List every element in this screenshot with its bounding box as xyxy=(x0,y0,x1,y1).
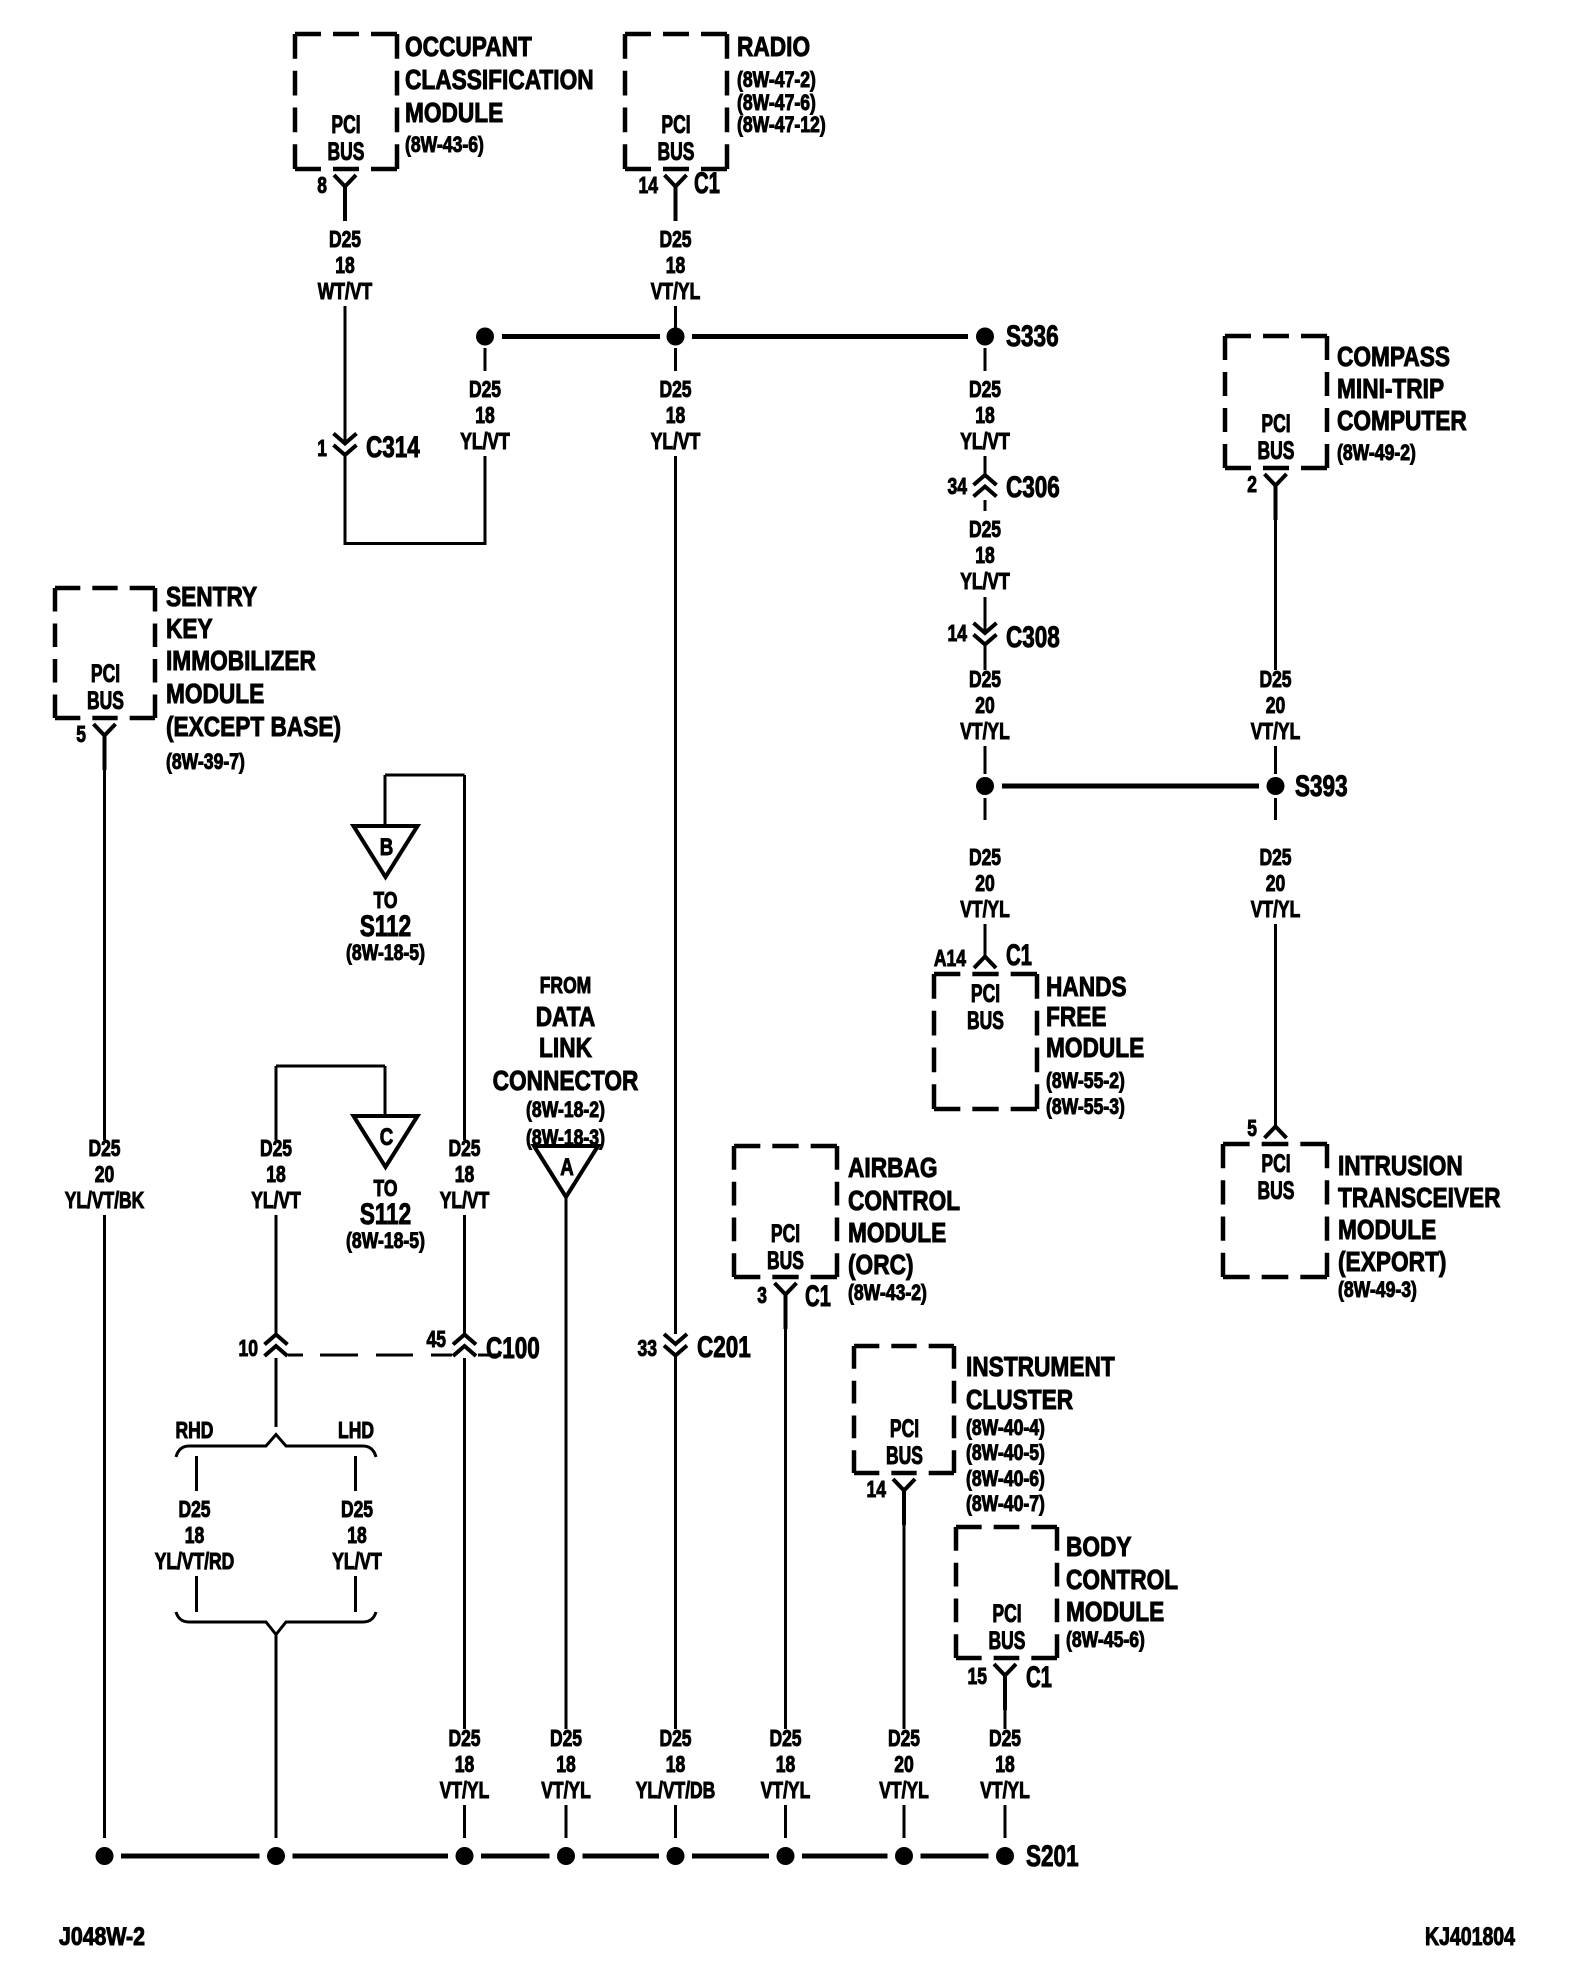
svg-text:BUS: BUS xyxy=(328,138,365,166)
module U5 INTRUSION TRANSCEIVER MODULE (EXPORT) (8W-49-3) PCI BUS box xyxy=(1223,1144,1501,1302)
svg-text:VT/YL: VT/YL xyxy=(541,1777,591,1803)
svg-text:18: 18 xyxy=(455,1161,475,1187)
svg-text:D25: D25 xyxy=(1259,666,1291,692)
wire from merge brace to S201 xyxy=(275,1635,278,1839)
module U9 BODY CONTROL MODULE (8W-45-6) PCI BUS box xyxy=(956,1527,1178,1658)
svg-text:COMPASS: COMPASS xyxy=(1337,341,1450,372)
svg-text:S336: S336 xyxy=(1006,320,1059,353)
svg-text:18: 18 xyxy=(556,1751,576,1777)
svg-text:CONNECTOR: CONNECTOR xyxy=(493,1065,639,1096)
svg-text:IMMOBILIZER: IMMOBILIZER xyxy=(166,645,316,676)
svg-text:VT/YL: VT/YL xyxy=(879,1777,929,1803)
svg-text:BUS: BUS xyxy=(967,1007,1004,1035)
wire D25 18 YL/VT between C306 and C308 xyxy=(960,500,1010,633)
svg-text:34: 34 xyxy=(948,473,968,499)
svg-text:B: B xyxy=(380,834,394,861)
svg-text:D25: D25 xyxy=(1259,844,1291,870)
svg-text:(8W-40-5): (8W-40-5) xyxy=(966,1440,1045,1465)
svg-text:CLASSIFICATION: CLASSIFICATION xyxy=(405,64,594,95)
svg-text:2: 2 xyxy=(1247,471,1257,497)
connector C1 pin 3 fork below airbag module xyxy=(757,1280,831,1329)
svg-text:BUS: BUS xyxy=(1258,1177,1295,1205)
svg-text:D25: D25 xyxy=(659,376,691,402)
svg-text:CLUSTER: CLUSTER xyxy=(966,1384,1073,1415)
svg-text:KJ401804: KJ401804 xyxy=(1425,1923,1515,1951)
wire D25 18 YL/VT/DB from C201 to S201 xyxy=(636,1356,716,1838)
svg-text:(ORC): (ORC) xyxy=(848,1249,914,1280)
svg-text:(8W-43-6): (8W-43-6) xyxy=(405,132,484,157)
svg-text:18: 18 xyxy=(995,1751,1015,1777)
svg-text:10: 10 xyxy=(239,1335,259,1361)
module U6 SENTRY KEY IMMOBILIZER MODULE (EXCEPT BASE) (8W-39-7) PCI BUS box xyxy=(55,581,341,774)
wire D25 20 VT/YL from S393 to intrusion module xyxy=(1251,798,1301,1126)
svg-text:AIRBAG: AIRBAG xyxy=(848,1152,938,1183)
svg-text:14: 14 xyxy=(867,1476,887,1502)
svg-text:(8W-55-2): (8W-55-2) xyxy=(1046,1068,1125,1093)
wire D25 20 VT/YL from S393 to hands free module xyxy=(960,798,1010,956)
connector pin 8 fork below occupant module xyxy=(317,172,356,221)
svg-text:YL/VT: YL/VT xyxy=(651,428,701,454)
wire D25 18 VT/YL from body control module to S201 xyxy=(980,1710,1030,1838)
svg-text:SENTRY: SENTRY xyxy=(166,581,257,612)
svg-text:MODULE: MODULE xyxy=(166,678,264,709)
svg-text:YL/VT: YL/VT xyxy=(332,1548,382,1574)
svg-text:MODULE: MODULE xyxy=(848,1217,946,1248)
svg-text:D25: D25 xyxy=(888,1725,920,1751)
takeout C TO S112 (8W-18-5) xyxy=(346,1116,425,1253)
svg-text:CONTROL: CONTROL xyxy=(1066,1564,1178,1595)
svg-text:INTRUSION: INTRUSION xyxy=(1338,1150,1463,1181)
svg-text:(8W-40-6): (8W-40-6) xyxy=(966,1466,1045,1491)
node FROM DATA LINK CONNECTOR (8W-18-2)(8W-18-3) takeout A xyxy=(493,972,639,1197)
svg-text:PCI: PCI xyxy=(890,1415,919,1443)
sheet reference J048W-2 xyxy=(59,1923,145,1951)
svg-text:D25: D25 xyxy=(550,1725,582,1751)
svg-text:8: 8 xyxy=(317,172,327,198)
wire D25 20 VT/YL from compass to S393 xyxy=(1251,520,1301,774)
svg-text:PCI: PCI xyxy=(992,1600,1021,1628)
svg-text:VT/YL: VT/YL xyxy=(960,718,1010,744)
module U4 HANDS FREE MODULE (8W-55-2)(8W-55-3) PCI BUS box xyxy=(934,971,1144,1119)
svg-text:FROM: FROM xyxy=(540,972,592,998)
svg-text:VT/YL: VT/YL xyxy=(761,1777,811,1803)
connector C306 pin 34 double chevron up xyxy=(948,471,1060,504)
splice S393 junction line with dots xyxy=(976,770,1348,803)
svg-text:(8W-39-7): (8W-39-7) xyxy=(166,749,245,774)
svg-text:D25: D25 xyxy=(659,226,691,252)
svg-text:A: A xyxy=(560,1154,574,1181)
wire D25 20 YL/VT/BK from sentry key module to S201 xyxy=(65,770,145,1838)
svg-text:D25: D25 xyxy=(769,1725,801,1751)
svg-text:VT/YL: VT/YL xyxy=(980,1777,1030,1803)
svg-text:18: 18 xyxy=(266,1161,286,1187)
svg-text:PCI: PCI xyxy=(1261,1150,1290,1178)
svg-text:(8W-49-2): (8W-49-2) xyxy=(1337,440,1416,465)
svg-text:MODULE: MODULE xyxy=(1046,1032,1144,1063)
svg-text:YL/VT: YL/VT xyxy=(460,428,510,454)
svg-text:D25: D25 xyxy=(969,516,1001,542)
svg-text:FREE: FREE xyxy=(1046,1001,1107,1032)
svg-text:(8W-45-6): (8W-45-6) xyxy=(1066,1627,1145,1652)
wire D25 20 VT/YL from instrument cluster to S201 xyxy=(879,1525,929,1838)
wire D25 18 YL/VT from B takeout to C100 xyxy=(440,775,490,1335)
svg-text:18: 18 xyxy=(666,402,686,428)
svg-text:D25: D25 xyxy=(659,1725,691,1751)
svg-text:MINI-TRIP: MINI-TRIP xyxy=(1337,373,1444,404)
svg-text:18: 18 xyxy=(185,1522,205,1548)
svg-text:D25: D25 xyxy=(989,1725,1021,1751)
wire from C314 to splice S336 branch xyxy=(344,455,487,545)
svg-text:1: 1 xyxy=(317,435,327,461)
svg-text:BUS: BUS xyxy=(989,1627,1026,1655)
svg-text:3: 3 xyxy=(757,1282,767,1308)
svg-text:20: 20 xyxy=(894,1751,914,1777)
svg-text:YL/VT: YL/VT xyxy=(960,428,1010,454)
svg-text:45: 45 xyxy=(427,1326,447,1352)
svg-text:(8W-55-3): (8W-55-3) xyxy=(1046,1094,1125,1119)
svg-text:18: 18 xyxy=(335,252,355,278)
svg-text:C201: C201 xyxy=(697,1331,751,1364)
connector C201 pin 33 double chevron xyxy=(638,1331,751,1364)
svg-text:OCCUPANT: OCCUPANT xyxy=(405,31,532,62)
wire D25 18 VT/YL from A takeout to S201 xyxy=(541,1197,591,1838)
svg-text:5: 5 xyxy=(76,721,86,747)
svg-text:(8W-18-5): (8W-18-5) xyxy=(346,940,425,965)
splice S201 ground bus with junction dots xyxy=(96,1840,1079,1873)
svg-text:C1: C1 xyxy=(1006,939,1032,972)
svg-text:HANDS: HANDS xyxy=(1046,971,1127,1002)
svg-text:YL/VT: YL/VT xyxy=(440,1187,490,1213)
svg-text:C1: C1 xyxy=(694,167,720,200)
svg-text:S112: S112 xyxy=(360,910,411,943)
svg-text:18: 18 xyxy=(666,1751,686,1777)
svg-text:D25: D25 xyxy=(469,376,501,402)
takeout B TO S112 (8W-18-5) xyxy=(346,826,425,965)
svg-text:18: 18 xyxy=(455,1751,475,1777)
svg-text:S112: S112 xyxy=(360,1198,411,1231)
svg-text:VT/YL: VT/YL xyxy=(960,896,1010,922)
svg-text:D25: D25 xyxy=(178,1496,210,1522)
connector pin 2 fork below compass module xyxy=(1247,471,1286,520)
svg-text:(8W-18-2): (8W-18-2) xyxy=(526,1097,605,1122)
wire D25 18 YL/VT/RD RHD branch xyxy=(155,1456,235,1612)
wire to triangle B takeout xyxy=(385,775,465,826)
svg-text:(8W-49-3): (8W-49-3) xyxy=(1338,1277,1417,1302)
svg-text:BUS: BUS xyxy=(87,687,124,715)
module U7 AIRBAG CONTROL MODULE (ORC) (8W-43-2) PCI BUS box xyxy=(734,1146,960,1305)
node RHD LHD merge brace xyxy=(176,1612,376,1635)
wire D25 18 YL/VT left branch of S336 xyxy=(460,348,510,454)
svg-text:TRANSCEIVER: TRANSCEIVER xyxy=(1338,1182,1501,1213)
svg-text:18: 18 xyxy=(666,252,686,278)
svg-text:18: 18 xyxy=(975,542,995,568)
svg-text:15: 15 xyxy=(968,1663,988,1689)
svg-text:(8W-40-4): (8W-40-4) xyxy=(966,1415,1045,1440)
svg-text:MODULE: MODULE xyxy=(1338,1214,1436,1245)
svg-text:20: 20 xyxy=(1266,870,1286,896)
svg-text:C306: C306 xyxy=(1006,471,1060,504)
svg-text:MODULE: MODULE xyxy=(1066,1596,1164,1627)
svg-text:BODY: BODY xyxy=(1066,1531,1132,1562)
svg-text:PCI: PCI xyxy=(1261,410,1290,438)
svg-text:(EXCEPT BASE): (EXCEPT BASE) xyxy=(166,711,341,742)
svg-text:18: 18 xyxy=(347,1522,367,1548)
svg-text:(8W-47-2): (8W-47-2) xyxy=(737,67,816,92)
connector pin 5 fork into intrusion module xyxy=(1247,1115,1286,1141)
svg-text:5: 5 xyxy=(1247,1115,1257,1141)
svg-text:VT/YL: VT/YL xyxy=(1251,718,1301,744)
sheet reference KJ401804 xyxy=(1425,1923,1515,1951)
svg-text:INSTRUMENT: INSTRUMENT xyxy=(966,1351,1115,1382)
wire from C100 pin 10 to RHD/LHD split brace xyxy=(275,1358,278,1427)
svg-text:D25: D25 xyxy=(969,376,1001,402)
svg-text:DATA: DATA xyxy=(536,1001,596,1032)
connector C1 pin 14 fork below radio xyxy=(639,167,721,221)
svg-text:YL/VT/RD: YL/VT/RD xyxy=(155,1548,235,1574)
connector C100 pins 10 and 45 double chevrons with dashed link xyxy=(239,1326,540,1365)
svg-text:BUS: BUS xyxy=(886,1442,923,1470)
wire D25 18 VT/YL from C100 pin 45 to S201 xyxy=(440,1358,490,1838)
svg-text:D25: D25 xyxy=(969,844,1001,870)
svg-text:A14: A14 xyxy=(934,945,966,971)
svg-text:YL/VT: YL/VT xyxy=(960,568,1010,594)
module U2 RADIO (8W-47-2)(8W-47-6)(8W-47-12) PCI BUS box xyxy=(625,31,826,169)
node RHD LHD branch split brace xyxy=(176,1417,376,1457)
wire D25 18 WT/VT from occupant module xyxy=(318,226,372,443)
svg-text:PCI: PCI xyxy=(661,111,690,139)
svg-text:D25: D25 xyxy=(329,226,361,252)
svg-text:VT/YL: VT/YL xyxy=(440,1777,490,1803)
svg-text:YL/VT/DB: YL/VT/DB xyxy=(636,1777,716,1803)
svg-text:PCI: PCI xyxy=(771,1220,800,1248)
connector pin 14 fork below instrument cluster xyxy=(867,1476,916,1525)
svg-text:BUS: BUS xyxy=(1258,437,1295,465)
svg-text:PCI: PCI xyxy=(91,660,120,688)
svg-text:VT/YL: VT/YL xyxy=(651,278,701,304)
connector C1 pin A14 fork into hands free module xyxy=(934,939,1032,972)
svg-text:CONTROL: CONTROL xyxy=(848,1185,960,1216)
wire to triangle C takeout xyxy=(276,1066,385,1116)
svg-text:KEY: KEY xyxy=(166,613,213,644)
wire D25 18 YL/VT from C takeout to C100 xyxy=(251,1066,301,1335)
svg-text:C314: C314 xyxy=(366,431,420,464)
wire D25 20 VT/YL from C308 to S393 xyxy=(960,644,1010,774)
svg-text:BUS: BUS xyxy=(767,1247,804,1275)
svg-text:D25: D25 xyxy=(88,1135,120,1161)
svg-text:C1: C1 xyxy=(805,1280,831,1313)
svg-text:RADIO: RADIO xyxy=(737,31,810,62)
wire D25 18 VT/YL from radio to S336 xyxy=(651,226,701,328)
svg-text:RHD: RHD xyxy=(176,1417,214,1443)
svg-text:20: 20 xyxy=(975,870,995,896)
svg-text:D25: D25 xyxy=(969,666,1001,692)
splice S336 junction line with dots xyxy=(476,320,1059,353)
wire D25 18 YL/VT LHD branch xyxy=(332,1456,382,1612)
svg-text:D25: D25 xyxy=(448,1135,480,1161)
connector C1 pin 15 fork below body control module xyxy=(968,1661,1053,1710)
svg-text:14: 14 xyxy=(948,620,968,646)
svg-text:(EXPORT): (EXPORT) xyxy=(1338,1246,1446,1277)
connector pin 5 fork below sentry key module xyxy=(76,721,115,770)
svg-text:14: 14 xyxy=(639,172,659,198)
svg-text:BUS: BUS xyxy=(658,138,695,166)
svg-text:LHD: LHD xyxy=(338,1417,374,1443)
svg-text:(8W-40-7): (8W-40-7) xyxy=(966,1491,1045,1516)
svg-text:C: C xyxy=(380,1124,394,1151)
svg-text:YL/VT: YL/VT xyxy=(251,1187,301,1213)
svg-text:D25: D25 xyxy=(341,1496,373,1522)
svg-text:PCI: PCI xyxy=(971,980,1000,1008)
wire D25 18 YL/VT right branch of S336 to C306 xyxy=(960,348,1010,475)
svg-text:18: 18 xyxy=(475,402,495,428)
svg-text:33: 33 xyxy=(638,1335,658,1361)
svg-text:18: 18 xyxy=(975,402,995,428)
connector C314 pin 1 double chevron xyxy=(317,431,420,464)
svg-text:S393: S393 xyxy=(1295,770,1348,803)
svg-text:LINK: LINK xyxy=(539,1032,592,1063)
svg-text:(8W-43-2): (8W-43-2) xyxy=(848,1280,927,1305)
svg-text:YL/VT/BK: YL/VT/BK xyxy=(65,1187,145,1213)
connector C308 pin 14 double chevron down xyxy=(948,620,1060,654)
svg-text:VT/YL: VT/YL xyxy=(1251,896,1301,922)
svg-text:C1: C1 xyxy=(1026,1661,1052,1694)
svg-text:D25: D25 xyxy=(260,1135,292,1161)
svg-text:COMPUTER: COMPUTER xyxy=(1337,405,1467,436)
svg-text:20: 20 xyxy=(1266,692,1286,718)
module U3 COMPASS MINI-TRIP COMPUTER (8W-49-2) PCI BUS box xyxy=(1225,336,1467,468)
svg-text:MODULE: MODULE xyxy=(405,97,503,128)
wire D25 18 VT/YL from airbag module to S201 xyxy=(761,1329,811,1838)
svg-text:PCI: PCI xyxy=(331,111,360,139)
svg-text:C100: C100 xyxy=(486,1332,540,1365)
svg-text:(8W-47-12): (8W-47-12) xyxy=(737,112,826,137)
module U8 INSTRUMENT CLUSTER (8W-40-4..7) PCI BUS box xyxy=(854,1346,1115,1516)
module U1 OCCUPANT CLASSIFICATION MODULE (8W-43-6) PCI BUS box xyxy=(295,31,594,169)
svg-text:C308: C308 xyxy=(1006,621,1060,654)
svg-text:20: 20 xyxy=(95,1161,115,1187)
wire D25 18 YL/VT below S336 middle branch xyxy=(651,348,701,1334)
svg-text:D25: D25 xyxy=(448,1725,480,1751)
svg-text:20: 20 xyxy=(975,692,995,718)
svg-text:(8W-18-5): (8W-18-5) xyxy=(346,1228,425,1253)
svg-text:18: 18 xyxy=(776,1751,796,1777)
svg-text:S201: S201 xyxy=(1026,1840,1079,1873)
svg-text:J048W-2: J048W-2 xyxy=(59,1923,145,1951)
svg-text:WT/VT: WT/VT xyxy=(318,278,372,304)
